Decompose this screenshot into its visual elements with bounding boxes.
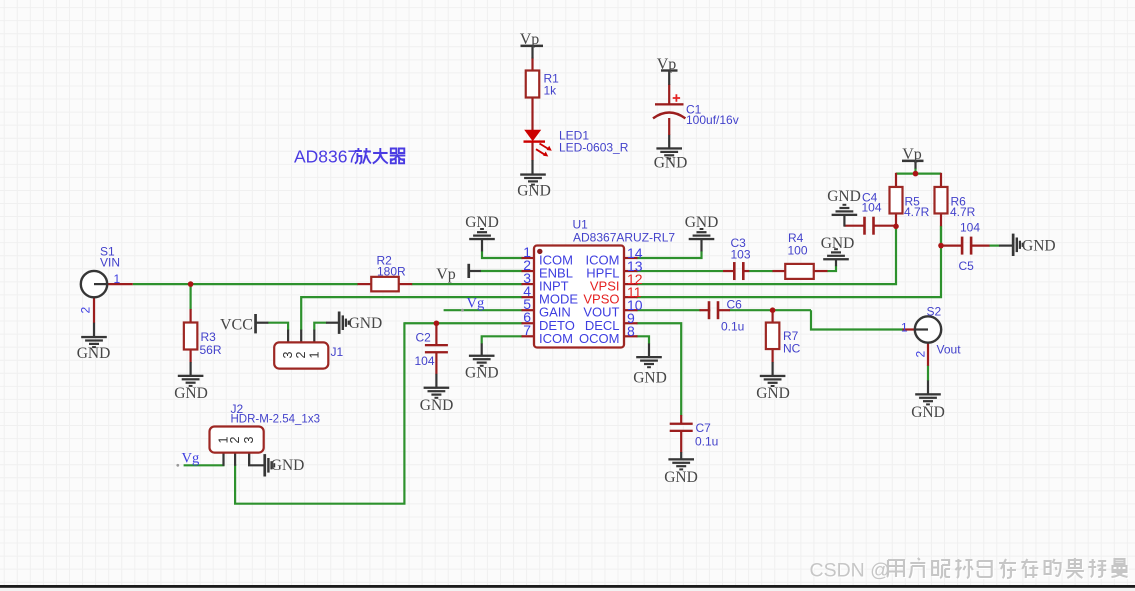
svg-text:Vp: Vp <box>520 31 540 48</box>
svg-text:U1: U1 <box>573 218 589 232</box>
svg-text:GND: GND <box>756 385 790 402</box>
svg-text:0.1u: 0.1u <box>695 435 718 449</box>
svg-text:1: 1 <box>901 320 908 334</box>
svg-text:C6: C6 <box>727 298 743 312</box>
svg-text:3: 3 <box>281 351 295 358</box>
svg-text:104: 104 <box>960 221 980 235</box>
svg-text:GND: GND <box>465 364 499 381</box>
svg-text:VCC: VCC <box>220 317 253 334</box>
svg-text:104: 104 <box>415 354 435 368</box>
svg-text:2: 2 <box>228 436 242 443</box>
svg-text:GND: GND <box>77 345 111 362</box>
svg-text:LED-0603_R: LED-0603_R <box>559 141 629 155</box>
svg-text:GND: GND <box>349 315 383 332</box>
svg-text:Vp: Vp <box>657 56 677 73</box>
svg-text:OCOM: OCOM <box>579 331 619 346</box>
svg-text:7: 7 <box>523 322 531 338</box>
svg-text:GND: GND <box>821 235 855 252</box>
svg-text:S2: S2 <box>927 305 942 319</box>
svg-text:GND: GND <box>174 385 208 402</box>
svg-text:VIN: VIN <box>100 256 120 270</box>
svg-text:1k: 1k <box>544 84 558 98</box>
svg-text:104: 104 <box>862 201 882 215</box>
svg-text:100: 100 <box>788 244 808 258</box>
svg-text:1: 1 <box>114 272 121 286</box>
svg-text:GND: GND <box>271 457 305 474</box>
svg-text:CSDN @: CSDN @ <box>810 560 890 582</box>
svg-text:GND: GND <box>664 469 698 486</box>
svg-text:4.7R: 4.7R <box>904 205 930 219</box>
svg-text:1: 1 <box>307 351 321 358</box>
svg-text:2: 2 <box>294 351 308 358</box>
svg-text:180R: 180R <box>377 265 406 279</box>
svg-text:NC: NC <box>783 342 801 356</box>
svg-text:C7: C7 <box>696 421 712 435</box>
svg-text:Vout: Vout <box>937 343 962 357</box>
svg-text:R3: R3 <box>201 330 217 344</box>
svg-text:56R: 56R <box>200 343 222 357</box>
svg-text:AD8367ARUZ-RL7: AD8367ARUZ-RL7 <box>573 231 675 245</box>
svg-text:GND: GND <box>465 214 499 231</box>
svg-text:0.1u: 0.1u <box>721 320 744 334</box>
svg-text:2: 2 <box>914 351 928 358</box>
svg-text:GND: GND <box>911 404 945 421</box>
svg-text:J1: J1 <box>331 345 344 359</box>
svg-text:Vp: Vp <box>436 266 456 283</box>
svg-text:HDR-M-2.54_1x3: HDR-M-2.54_1x3 <box>231 414 320 426</box>
svg-text:GND: GND <box>654 154 688 171</box>
svg-text:GND: GND <box>420 397 454 414</box>
svg-text:2: 2 <box>79 307 93 314</box>
svg-text:100uf/16v: 100uf/16v <box>686 113 739 127</box>
svg-text:GND: GND <box>517 182 551 199</box>
svg-text:GND: GND <box>633 370 667 387</box>
svg-text:C5: C5 <box>959 259 975 273</box>
svg-text:3: 3 <box>242 436 256 443</box>
svg-text:103: 103 <box>731 248 751 262</box>
svg-text:Vg: Vg <box>182 451 200 467</box>
svg-text:ICOM: ICOM <box>539 331 573 346</box>
svg-text:Vg: Vg <box>467 296 485 312</box>
svg-text:GND: GND <box>827 188 861 205</box>
svg-text:GND: GND <box>1022 238 1056 255</box>
svg-text:GND: GND <box>685 214 719 231</box>
svg-text:C2: C2 <box>416 331 432 345</box>
svg-text:4.7R: 4.7R <box>950 205 976 219</box>
svg-text:Vp: Vp <box>902 146 922 163</box>
svg-text:AD8367: AD8367 <box>294 147 357 167</box>
svg-text:8: 8 <box>627 323 635 339</box>
